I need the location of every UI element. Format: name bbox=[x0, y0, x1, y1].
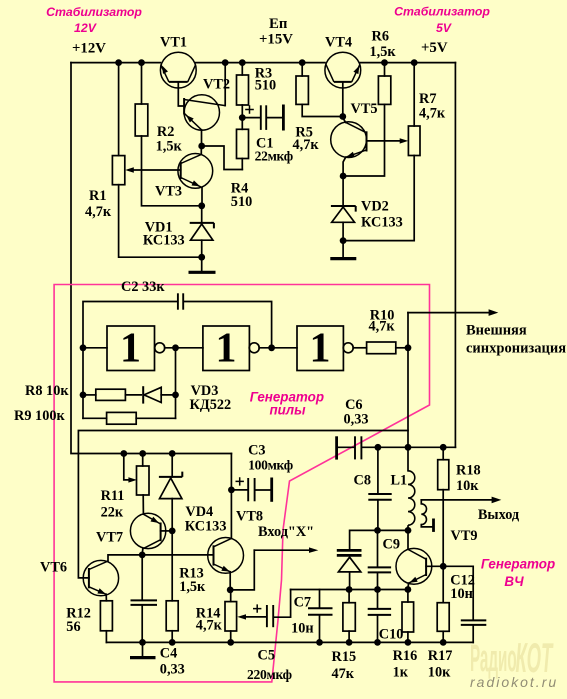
wire gate2 output to gate3 input bbox=[259, 347, 297, 349]
svg-text:510: 510 bbox=[231, 194, 252, 210]
wire +15V top rail segment 3 bbox=[360, 62, 455, 64]
wire L1 secondary bottom lead bbox=[421, 525, 432, 527]
resistor R18 bbox=[438, 460, 449, 490]
wire VT8 emitter node to input X corner bbox=[230, 550, 254, 590]
node tank L1 bbox=[405, 444, 412, 451]
svg-text:КС133: КС133 bbox=[185, 519, 227, 535]
resistor R13 bbox=[166, 601, 178, 631]
L1 secondary ground bar bbox=[432, 519, 435, 532]
transistor VT2 bbox=[184, 95, 225, 130]
capacitor C6 bbox=[337, 436, 362, 459]
node ground R15 bbox=[346, 639, 353, 646]
wire VD1 anode to ground node bbox=[201, 240, 203, 257]
svg-text:100мкф: 100мкф bbox=[248, 458, 293, 473]
node VT3 emitter R2 bbox=[198, 202, 205, 209]
zener diode VD1 bbox=[190, 223, 214, 240]
wire C4 top lead bbox=[141, 555, 143, 600]
node L1 bottom VT9 collector bbox=[405, 527, 412, 534]
wire VT3 emitter to VD1 bbox=[201, 187, 203, 205]
svg-text:C10: C10 bbox=[379, 627, 404, 643]
wire gate3 output to R10 bbox=[353, 347, 366, 349]
svg-text:R1: R1 bbox=[89, 188, 106, 204]
node VD1 anode R1 bbox=[198, 254, 205, 261]
arrow R14 wiper bbox=[237, 614, 246, 619]
wire node VT3-collector to R4 bottom elbow bbox=[202, 146, 243, 170]
wire VT5 base to R7 wiper bbox=[367, 140, 400, 142]
wire VD2 cathode lead bbox=[342, 176, 344, 206]
wire VT9 base lead bbox=[426, 565, 443, 567]
svg-text:пилы: пилы bbox=[269, 403, 306, 418]
svg-text:4,7к: 4,7к bbox=[196, 618, 223, 634]
svg-text:VT3: VT3 bbox=[155, 183, 182, 199]
transistor VT7 bbox=[130, 513, 165, 549]
svg-text:Стабилизатор: Стабилизатор bbox=[394, 5, 490, 19]
wire R16 top lead bbox=[407, 590, 409, 603]
wire C12 bottom lead bbox=[472, 625, 474, 642]
svg-text:56: 56 bbox=[66, 619, 80, 635]
wire R1 bottom lead to VD1 node bbox=[119, 185, 202, 258]
svg-text:VT6: VT6 bbox=[40, 560, 67, 576]
wire C1 middle lead bbox=[267, 117, 282, 119]
svg-text:C3: C3 bbox=[248, 443, 265, 459]
node VT9 base R17 bbox=[440, 563, 447, 570]
ground below C4 bbox=[130, 656, 156, 659]
node rail R3 bbox=[239, 59, 246, 66]
svg-text:0,33: 0,33 bbox=[344, 412, 369, 428]
svg-text:4,7к: 4,7к bbox=[419, 106, 446, 122]
wire C2 left branch bbox=[83, 302, 177, 348]
wire C7 top lead bbox=[319, 590, 321, 609]
wire VT7 collector node to VT6 collector bbox=[108, 555, 142, 561]
wire C6 tank top: bar lead and to right drop corner bbox=[338, 446, 456, 448]
resistor R6 bbox=[378, 76, 390, 104]
svg-text:Выход: Выход bbox=[478, 507, 520, 523]
resistor R11 (potentiometer body) bbox=[137, 466, 150, 495]
svg-text:1: 1 bbox=[216, 326, 237, 372]
resistor R2 bbox=[135, 104, 148, 136]
wire C10 top lead bbox=[377, 590, 379, 609]
transistor VT8 bbox=[208, 538, 244, 574]
wire HF bottom distribution bbox=[291, 589, 408, 591]
node gate1 input bbox=[80, 344, 87, 351]
capacitor C9 bbox=[368, 567, 391, 572]
ground below VD2 bbox=[330, 257, 356, 260]
svg-text:1,5к: 1,5к bbox=[370, 44, 397, 60]
svg-text:C9: C9 bbox=[383, 537, 400, 553]
watermark Radio bbox=[470, 638, 517, 680]
wire R6 top lead bbox=[384, 63, 386, 76]
svg-text:+12V: +12V bbox=[72, 41, 106, 57]
wire R15 top lead bbox=[348, 590, 350, 603]
wire +15V top rail segment 2 bbox=[196, 62, 325, 64]
arrow output bbox=[492, 497, 502, 504]
wire R11 top lead bbox=[142, 454, 144, 467]
arrow R11 wiper bbox=[128, 477, 137, 482]
wire R12 bottom lead bbox=[105, 631, 107, 643]
capacitor C8 bbox=[368, 494, 391, 500]
capacitor C12 bbox=[461, 620, 487, 625]
zener diode VD2 bbox=[331, 206, 356, 222]
svg-text:Внешняя: Внешняя bbox=[466, 323, 527, 339]
wire R5 bottom lead to VT4 emitter node bbox=[302, 104, 343, 116]
svg-text:12V: 12V bbox=[74, 21, 98, 35]
resistor R9 bbox=[107, 412, 137, 424]
node rail R6 bbox=[381, 59, 388, 66]
transistor VT6 bbox=[83, 560, 118, 595]
wire R14 wiper to C5 bbox=[246, 616, 266, 618]
resistor R7 (potentiometer body) bbox=[408, 126, 420, 156]
wire C3 positive lead bbox=[231, 489, 247, 491]
node ground R13 bbox=[169, 639, 176, 646]
transistor VT3 bbox=[178, 154, 213, 189]
node gate2 output bbox=[268, 344, 275, 351]
wire sync arrow line bbox=[408, 312, 490, 314]
transistor VT1 bbox=[160, 52, 196, 88]
transistor VT5 bbox=[331, 122, 367, 158]
wire R18 bottom to VT9 base node and R17 bbox=[442, 490, 444, 603]
resistor R15 bbox=[343, 603, 355, 631]
node ground R17 bbox=[440, 639, 447, 646]
node VT9 emitter R16 bbox=[405, 586, 412, 593]
svg-text:10н: 10н bbox=[450, 586, 473, 602]
wire VT4 emitter lead bbox=[342, 82, 344, 117]
node varicap R15 bbox=[346, 586, 353, 593]
capacitor C10 bbox=[368, 609, 391, 615]
wire varicap anode lead bbox=[349, 572, 351, 590]
wire VT5 emitter lead bbox=[343, 157, 346, 176]
wire R4 bottom lead bbox=[241, 159, 243, 170]
node rail VT2 collector bbox=[222, 59, 229, 66]
inductor L1 secondary winding bbox=[421, 504, 426, 525]
logic gate DD1.3 bbox=[297, 326, 353, 371]
capacitor C1 bbox=[245, 105, 283, 131]
wire R14 top lead bbox=[230, 590, 232, 602]
wire VT2 collector to rail bbox=[224, 63, 226, 106]
wire C8 top lead bbox=[377, 447, 379, 494]
wire R17 bottom lead bbox=[442, 631, 444, 642]
wire VD4 anode to VT7 base node bbox=[171, 499, 173, 531]
wire L1 primary bottom continues to VT9 collector bbox=[407, 525, 409, 549]
svg-text:VT1: VT1 bbox=[160, 35, 187, 51]
wire long feedback VT6 base to R10 node bbox=[78, 431, 408, 578]
arrow R1 wiper bbox=[125, 167, 134, 172]
wire R7 top lead bbox=[413, 63, 415, 126]
svg-text:R8 10к: R8 10к bbox=[25, 383, 69, 399]
wire VT7 collector node to VT8 base bbox=[142, 554, 213, 556]
svg-text:R16: R16 bbox=[393, 648, 418, 664]
svg-text:C5: C5 bbox=[258, 648, 275, 664]
svg-text:синхронизация: синхронизация bbox=[466, 341, 566, 357]
watermark KOT bbox=[516, 634, 555, 681]
wire R9 right lead bbox=[136, 417, 175, 419]
resistor R12 bbox=[100, 601, 112, 631]
wire C10 bottom lead bbox=[377, 615, 379, 642]
svg-text:22мкф: 22мкф bbox=[255, 149, 293, 164]
resistor R3 bbox=[237, 75, 249, 105]
svg-text:10к: 10к bbox=[456, 478, 479, 494]
wire C4 bottom lead bbox=[141, 606, 143, 643]
svg-text:22к: 22к bbox=[101, 505, 124, 521]
wire VT7 emitter to R11 bbox=[142, 495, 144, 514]
svg-text:VT8: VT8 bbox=[236, 508, 263, 524]
ground below VD1 bbox=[189, 271, 216, 274]
capacitor C3 bbox=[236, 477, 272, 502]
svg-text:+5V: +5V bbox=[421, 40, 448, 56]
svg-text:4,7к: 4,7к bbox=[293, 137, 320, 153]
wire ground stub below C4 bbox=[142, 642, 144, 656]
wire varicap branch corner bbox=[350, 530, 408, 549]
svg-text:C8: C8 bbox=[354, 473, 371, 489]
wire VD3 anode lead bbox=[161, 394, 175, 396]
wire C7 bottom lead bbox=[319, 615, 321, 642]
zener diode VD4 bbox=[159, 472, 182, 499]
svg-text:VT2: VT2 bbox=[203, 76, 230, 92]
node VD2 anode R7 bbox=[340, 237, 347, 244]
wire R16 bottom lead bbox=[407, 632, 409, 642]
arrow R7 wiper bbox=[400, 138, 409, 143]
arrow external sync bbox=[489, 309, 499, 316]
node feed rail R11 top bbox=[139, 450, 146, 457]
wire R8 to VD3 bbox=[125, 394, 141, 396]
wire C9 top lead bbox=[377, 530, 379, 567]
node C8 bottom varicap bbox=[374, 527, 381, 534]
svg-text:R15: R15 bbox=[332, 649, 357, 665]
wire R13 bottom lead bbox=[171, 631, 173, 643]
node ground C4 bbox=[139, 639, 146, 646]
svg-text:10н: 10н bbox=[291, 621, 314, 637]
node rail R5 bbox=[299, 59, 306, 66]
wire R13 top lead bbox=[171, 531, 173, 601]
node VD3 anode bbox=[172, 392, 179, 399]
wire VD3 node down-up vertical bbox=[175, 348, 177, 419]
capacitor C4 bbox=[131, 600, 158, 605]
resistor R8 bbox=[96, 389, 126, 400]
svg-text:510: 510 bbox=[255, 77, 276, 93]
wire VT8 emitter lead bbox=[229, 572, 231, 590]
transistor VT9 bbox=[396, 548, 432, 584]
node C3 positive bbox=[228, 487, 235, 494]
wire right drop from +5V rail to HF tank bbox=[454, 63, 456, 448]
wire VT2 emitter to VT3 collector node bbox=[201, 130, 203, 146]
node VT2 emitter VT3 collector bbox=[198, 143, 205, 150]
arrow input X bbox=[309, 547, 318, 553]
svg-text:R9 100к: R9 100к bbox=[14, 408, 65, 424]
node rail R7 bbox=[411, 59, 418, 66]
wire VD1 cathode lead bbox=[201, 206, 203, 223]
wire VT6 emitter to R12 bbox=[105, 594, 107, 601]
svg-text:КС133: КС133 bbox=[361, 215, 403, 231]
wire gate1 input lead bbox=[83, 347, 107, 349]
svg-text:КД522: КД522 bbox=[190, 397, 232, 413]
wire C5 right lead to HF bottom wire bbox=[274, 590, 291, 618]
node rail R1 bbox=[115, 59, 122, 66]
svg-text:220мкф: 220мкф bbox=[247, 667, 292, 682]
node ground C10 bbox=[374, 639, 381, 646]
svg-text:5V: 5V bbox=[436, 21, 453, 35]
wire gate1 output to gate2 input bbox=[165, 347, 203, 349]
node R3 R4 C1 bbox=[239, 114, 246, 121]
node R8 left bbox=[80, 392, 87, 399]
svg-text:R11: R11 bbox=[101, 488, 125, 504]
svg-text:4,7к: 4,7к bbox=[85, 204, 112, 220]
wire VD2 anode to ground node bbox=[342, 222, 344, 240]
wire R1 wiper to VT3 base bbox=[133, 169, 181, 171]
svg-text:1к: 1к bbox=[393, 665, 409, 681]
node VT7 collector bbox=[139, 552, 146, 559]
svg-text:C7: C7 bbox=[294, 595, 311, 611]
svg-text:КС133: КС133 bbox=[143, 233, 185, 249]
wire input X arrow line bbox=[254, 549, 309, 551]
logic gate DD1.2 bbox=[203, 326, 259, 371]
wire R8 left lead bbox=[83, 394, 96, 396]
wire R10 node column down to HF tank bbox=[407, 313, 409, 471]
resistor R5 bbox=[296, 76, 308, 104]
svg-text:Еп: Еп bbox=[269, 16, 288, 32]
svg-text:1: 1 bbox=[310, 326, 331, 372]
wire ground rail bottom bbox=[106, 641, 473, 643]
wire VT5 emitter node to R6 bottom bbox=[343, 104, 384, 176]
wire C2 right branch bbox=[184, 302, 271, 348]
svg-text:4,7к: 4,7к bbox=[369, 319, 396, 335]
svg-text:VD2: VD2 bbox=[361, 199, 389, 215]
node feed rail VD4 bbox=[169, 450, 176, 457]
svg-text:47к: 47к bbox=[332, 666, 355, 682]
node VT4 emitter R5 bbox=[339, 113, 346, 120]
wire R3 top lead bbox=[241, 63, 243, 75]
node tank C8 bbox=[375, 444, 382, 451]
wire R8 branch left vertical bbox=[82, 348, 84, 419]
wire +15V top rail segment 1 bbox=[71, 62, 160, 64]
svg-text:C4: C4 bbox=[160, 646, 177, 662]
wire VT9 emitter lead bbox=[407, 583, 410, 589]
svg-text:VT4: VT4 bbox=[325, 34, 352, 50]
wire ground stub below VD1 bbox=[201, 257, 203, 272]
node VD4 anode VT7 base bbox=[169, 528, 176, 535]
resistor R14 (potentiometer body) bbox=[225, 602, 237, 631]
svg-text:10к: 10к bbox=[428, 665, 451, 681]
node ground C7 bbox=[316, 639, 323, 646]
svg-text:R17: R17 bbox=[428, 648, 453, 664]
wire VT5 collector lead bbox=[343, 117, 346, 123]
node ground R16 bbox=[405, 639, 412, 646]
wire output line bbox=[421, 499, 492, 501]
svg-text:VT7: VT7 bbox=[96, 529, 123, 545]
wire VD2 node to R7 bottom bbox=[343, 156, 414, 241]
wire R9 left lead bbox=[83, 417, 107, 419]
svg-text:R6: R6 bbox=[372, 29, 389, 45]
resistor R16 bbox=[402, 602, 414, 632]
svg-text:R18: R18 bbox=[456, 463, 481, 479]
wire R14 bottom lead bbox=[230, 631, 232, 642]
wire R2 bottom lead to VT3 emitter node bbox=[142, 136, 202, 206]
node VT5 emitter R6 bbox=[340, 173, 347, 180]
wire C9 bottom lead bbox=[377, 573, 379, 590]
svg-text:Вход"X": Вход"X" bbox=[258, 524, 314, 540]
wire R18 top lead bbox=[442, 447, 444, 459]
node gate1 output bbox=[172, 344, 179, 351]
capacitor C5 bbox=[253, 604, 273, 627]
node tank R18 bbox=[440, 444, 447, 451]
wire L1 secondary top lead bbox=[420, 500, 422, 504]
wire C8 bottom lead bbox=[377, 500, 379, 531]
wire VD4 top lead bbox=[171, 454, 173, 477]
wire feed drop to C3 node and VT8 collector bbox=[230, 454, 232, 539]
wire C1 left lead bbox=[242, 117, 260, 119]
pink outline sawtooth generator region bbox=[54, 285, 429, 682]
wire +12V left drop and lower feed rail bbox=[71, 63, 231, 454]
varicap diode bbox=[337, 550, 362, 572]
node feed rail R11 wiper bbox=[120, 450, 127, 457]
wire VT1 base lead to VT2 base bbox=[178, 82, 184, 106]
wire R5 top lead bbox=[301, 63, 303, 76]
resistor R4 bbox=[237, 129, 249, 158]
svg-text:VT5: VT5 bbox=[351, 101, 378, 117]
transistor VT4 bbox=[325, 52, 361, 88]
wire C12 branch bbox=[443, 566, 473, 620]
svg-text:1: 1 bbox=[120, 326, 141, 372]
svg-text:1,5к: 1,5к bbox=[179, 579, 206, 595]
svg-text:C2 33к: C2 33к bbox=[121, 279, 165, 295]
wire R1 top lead bbox=[118, 63, 120, 156]
node rail R2 bbox=[138, 59, 145, 66]
diode VD3 bbox=[143, 386, 161, 403]
node ground R14 bbox=[227, 639, 234, 646]
wire R2 top lead bbox=[141, 63, 143, 104]
wire VT7 collector lead bbox=[141, 549, 144, 555]
svg-text:L1: L1 bbox=[391, 473, 408, 489]
wire VT3 collector lead bbox=[200, 146, 202, 154]
wire ground stub below VD2 bbox=[342, 241, 344, 258]
capacitor C2 bbox=[178, 293, 183, 309]
wire R11 wiper branch bbox=[124, 454, 133, 480]
resistor R10 bbox=[367, 342, 396, 354]
wire R10 right lead to node bbox=[396, 347, 408, 349]
svg-text:0,33: 0,33 bbox=[160, 662, 185, 678]
svg-text:+15V: +15V bbox=[259, 31, 293, 47]
svg-text:VT9: VT9 bbox=[451, 528, 478, 544]
resistor R1 (potentiometer body) bbox=[112, 156, 124, 185]
capacitor C7 bbox=[308, 608, 333, 614]
svg-text:ВЧ: ВЧ bbox=[504, 574, 524, 589]
svg-text:radiokot.ru: radiokot.ru bbox=[470, 674, 558, 690]
wire R15 bottom lead bbox=[348, 631, 350, 642]
inductor L1 primary winding bbox=[408, 471, 415, 525]
logic gate DD1.1 bbox=[107, 326, 165, 371]
node C9 C10 bbox=[374, 586, 381, 593]
node VT8 emitter bbox=[227, 587, 234, 594]
wire R3 bottom to R4 top through C1 node bbox=[241, 105, 243, 129]
resistor R17 bbox=[437, 603, 449, 632]
svg-text:1,5к: 1,5к bbox=[156, 139, 183, 155]
wire C3 middle lead bbox=[256, 489, 271, 491]
wire VT7 base lead bbox=[161, 530, 173, 532]
svg-text:Стабилизатор: Стабилизатор bbox=[46, 5, 142, 19]
node R10 output bbox=[405, 344, 412, 351]
svg-text:Генератор: Генератор bbox=[481, 557, 555, 572]
